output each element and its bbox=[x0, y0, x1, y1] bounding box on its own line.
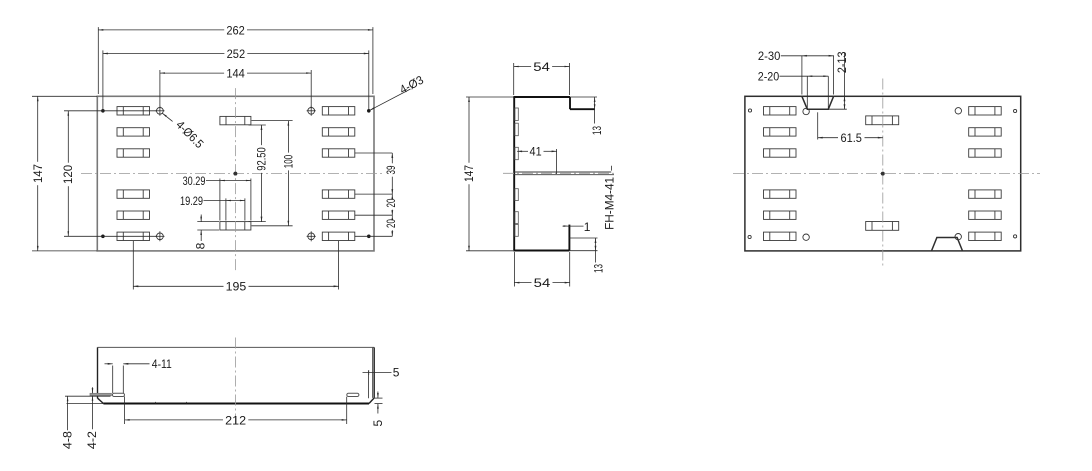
bottom view bottom edge tick marks bbox=[155, 402, 157, 404]
svg-text:147: 147 bbox=[462, 165, 476, 182]
dimension 100 extension lines bbox=[252, 120, 293, 122]
svg-text:54: 54 bbox=[533, 60, 550, 74]
svg-text:61.5: 61.5 bbox=[841, 131, 863, 145]
svg-text:5: 5 bbox=[371, 419, 385, 426]
bottom view left edge bbox=[97, 347, 99, 398]
svg-text:212: 212 bbox=[225, 413, 246, 427]
svg-text:195: 195 bbox=[226, 280, 247, 294]
svg-text:30.29: 30.29 bbox=[183, 174, 206, 188]
svg-text:13: 13 bbox=[591, 264, 605, 273]
dimension 20 lower bbox=[391, 215, 393, 217]
dimension 54 bottom bbox=[514, 282, 531, 284]
svg-text:147: 147 bbox=[31, 164, 45, 183]
front view left slot row5 bbox=[117, 211, 150, 219]
right view right slot row5 bbox=[969, 211, 1002, 219]
right view left slot row1 bbox=[764, 107, 797, 115]
dimension 4-11 extension lines bbox=[112, 366, 114, 394]
bottom view bottom edge bbox=[67, 403, 104, 405]
svg-text:19.29: 19.29 bbox=[180, 194, 203, 208]
front view row6 extension line through hole and slot bbox=[64, 235, 157, 237]
svg-text:4-2: 4-2 bbox=[85, 431, 99, 449]
right view top notch bottom extension bbox=[828, 108, 847, 110]
dimension 2-30 extension lines bbox=[801, 56, 803, 95]
dimension 2-20 bbox=[780, 75, 829, 77]
svg-text:2-13: 2-13 bbox=[835, 51, 849, 73]
svg-text:120: 120 bbox=[61, 165, 75, 184]
right view holes D6.5 bbox=[803, 108, 809, 114]
front view right slot row5 bbox=[322, 211, 355, 219]
dimension 252 bbox=[103, 53, 224, 55]
svg-text:5: 5 bbox=[393, 366, 400, 380]
dimension 147 extension lines bbox=[32, 95, 97, 97]
right view left slot row4 bbox=[764, 190, 797, 198]
dimension 8 extension lines bbox=[197, 221, 219, 223]
right view corner holes bbox=[748, 109, 751, 112]
right view upper center slot bbox=[866, 116, 899, 125]
front view plate outline bbox=[97, 96, 374, 251]
dimension 212 bbox=[125, 419, 223, 421]
dimension 147 side view extension lines bbox=[466, 96, 513, 98]
side view top flange bbox=[513, 96, 570, 98]
svg-text:100: 100 bbox=[282, 155, 296, 169]
side view web bbox=[513, 97, 515, 251]
dimension 92.50 bbox=[261, 125, 263, 145]
dimension 5 foot bbox=[377, 392, 379, 399]
right view right slot row3 bbox=[969, 149, 1002, 157]
side view center slot edge lines bbox=[514, 171, 611, 173]
dimension 212 extension lines bbox=[124, 397, 126, 425]
svg-text:252: 252 bbox=[227, 47, 246, 61]
leader lines right slots rows 3-6 bbox=[355, 152, 393, 154]
front view left slot row6 bbox=[117, 232, 150, 240]
front view right slot row3 bbox=[322, 149, 355, 157]
bottom view left foot reference line bbox=[65, 395, 111, 397]
dimension 195 extension lines bbox=[132, 241, 134, 290]
right view centerline vertical bbox=[882, 79, 884, 267]
svg-text:1: 1 bbox=[584, 220, 591, 234]
dimension 2-20 extension lines bbox=[806, 76, 808, 108]
dimension 41 bbox=[517, 150, 528, 152]
leader 4-D3 bbox=[370, 89, 411, 110]
right view top notch bbox=[802, 96, 834, 109]
dimension 19.29 bbox=[204, 200, 245, 202]
right view center mark bbox=[881, 172, 884, 175]
dimension 5 right wall bbox=[363, 372, 392, 374]
front view centerline horizontal bbox=[81, 173, 382, 175]
dimension 4-11 bbox=[105, 363, 113, 365]
dimension 120 bbox=[67, 111, 69, 163]
right view plate outline bbox=[745, 96, 1021, 251]
right view right slot row1 bbox=[969, 107, 1002, 115]
dimension 147 side view bbox=[468, 97, 470, 163]
dimension 92.50 extension lines bbox=[249, 124, 266, 126]
dimension 30.29 extension lines bbox=[219, 179, 221, 221]
bottom view right edge double line bbox=[372, 347, 374, 398]
dimension 2-30 bbox=[781, 55, 834, 57]
dimension 19.29 extension lines bbox=[225, 198, 227, 220]
svg-text:4-8: 4-8 bbox=[61, 431, 75, 449]
dimension 30.29 bbox=[206, 180, 251, 182]
side view web tabs bbox=[515, 108, 518, 121]
bottom view right foot slot bbox=[347, 393, 359, 396]
right view left slot row2 bbox=[764, 128, 797, 136]
bottom view right inner hem line bbox=[368, 371, 370, 398]
dimension 8 bbox=[200, 215, 202, 222]
dimension 13 bottom right extension lines bbox=[569, 237, 597, 239]
bottom view centerline bbox=[234, 338, 236, 427]
dimension 61.5 extension line bbox=[817, 112, 819, 139]
right view right slot row4 bbox=[969, 190, 1002, 198]
front view corner holes 4-D3 bbox=[101, 109, 105, 113]
front view centerline vertical bbox=[234, 88, 236, 270]
front view right slot row6 bbox=[322, 232, 355, 240]
dimension 4-8 bbox=[67, 396, 69, 430]
dimension 54 top bbox=[514, 66, 531, 68]
dimension 262 bbox=[98, 29, 224, 31]
dimension 144 bbox=[160, 72, 224, 74]
dimension 54 top extension lines bbox=[513, 63, 515, 95]
right view left slot row5 bbox=[764, 211, 797, 219]
dimension 252 extension lines bbox=[102, 50, 104, 109]
svg-text:20: 20 bbox=[384, 198, 398, 207]
bottom view left chamfer bbox=[98, 398, 104, 403]
front view row1 extension line through hole and slot bbox=[64, 110, 157, 112]
front view left slot row4 bbox=[117, 190, 150, 198]
svg-text:20: 20 bbox=[384, 219, 398, 228]
front view right slot row1 bbox=[322, 107, 355, 115]
front view center mark bbox=[234, 172, 237, 175]
svg-text:8: 8 bbox=[193, 242, 207, 249]
dimension 1 bbox=[563, 225, 584, 227]
right view lower center slot bbox=[866, 222, 899, 231]
dimension 13 top right bbox=[570, 96, 597, 98]
svg-text:4-11: 4-11 bbox=[152, 357, 172, 371]
side view centerline bbox=[503, 172, 616, 174]
front view lower center slot bbox=[220, 222, 251, 230]
dimension 4-2 bbox=[92, 387, 94, 393]
bottom view top edge bbox=[98, 346, 375, 348]
side view bottom flange bbox=[513, 250, 569, 252]
svg-text:144: 144 bbox=[226, 67, 245, 81]
right view right slot row6 bbox=[969, 232, 1002, 240]
svg-text:92.50: 92.50 bbox=[254, 147, 268, 171]
dimension 262 extension lines bbox=[97, 27, 99, 94]
svg-text:FH-M4-41: FH-M4-41 bbox=[603, 177, 617, 230]
right view left slot row6 bbox=[764, 232, 797, 240]
front view upper center slot bbox=[220, 116, 251, 124]
dimension 144 extension lines bbox=[159, 70, 161, 109]
right view bottom notch bbox=[932, 238, 963, 251]
svg-text:41: 41 bbox=[530, 145, 542, 159]
right view left slot row3 bbox=[764, 149, 797, 157]
bottom view left foot slot 4-11 bbox=[112, 393, 124, 396]
dimension 13 bottom right bbox=[595, 238, 597, 263]
front view left slot row1 bbox=[117, 107, 150, 115]
svg-text:54: 54 bbox=[534, 276, 551, 290]
bottom view right chamfer bbox=[369, 398, 374, 404]
dimension 5 foot extension lines bbox=[375, 397, 383, 399]
svg-text:2-20: 2-20 bbox=[758, 70, 780, 84]
dimension 100 bbox=[287, 121, 289, 153]
front view right slot row4 bbox=[322, 190, 355, 198]
front view left slot row3 bbox=[117, 149, 150, 157]
svg-text:13: 13 bbox=[590, 126, 604, 135]
front view left slot row2 bbox=[117, 128, 150, 136]
dimension 20 upper bbox=[391, 194, 393, 196]
svg-text:39: 39 bbox=[384, 165, 398, 174]
dimension 2-13 bbox=[844, 53, 846, 109]
right view right slot row2 bbox=[969, 128, 1002, 136]
svg-text:262: 262 bbox=[226, 23, 245, 37]
leader 4-D6.5 bbox=[162, 113, 172, 121]
dimension 39 bbox=[391, 153, 393, 163]
dimension 195 bbox=[133, 285, 223, 287]
dimension 147 front view bbox=[37, 96, 39, 162]
svg-text:2-30: 2-30 bbox=[758, 49, 781, 63]
dimension 61.5 bbox=[818, 137, 838, 139]
dimension 54 bottom extension lines bbox=[513, 252, 515, 287]
front view holes 4-D6.5 with center ticks bbox=[157, 107, 164, 114]
front view right slot row2 bbox=[322, 128, 355, 136]
bottom view left foot flange bbox=[90, 393, 111, 395]
right view centerline horizontal bbox=[733, 173, 1040, 175]
